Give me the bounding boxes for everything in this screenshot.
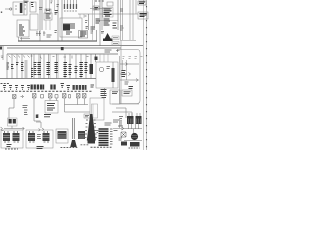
drop wire d1 xyxy=(6,54,8,79)
wiper arrows xyxy=(39,128,44,131)
drop wire d16 xyxy=(90,54,92,79)
wire horizontal h1 xyxy=(90,8,112,10)
ECU wire h6 xyxy=(120,79,139,81)
drop wire d9b xyxy=(49,54,51,79)
wire vertical w13 xyxy=(132,0,134,40)
fuse box F-A outline xyxy=(30,2,36,12)
motor box M1 outline xyxy=(1,130,23,148)
note box N1 text xyxy=(124,92,131,94)
ground row g7 xyxy=(67,86,71,90)
motor M1 brush marks xyxy=(7,145,12,147)
fuse F-B elements xyxy=(46,14,51,18)
blower marks xyxy=(119,138,123,140)
connector strip row 3 xyxy=(73,85,87,90)
heater leads up xyxy=(129,113,140,116)
wire vertical w3 xyxy=(57,0,59,41)
drop wire d4 xyxy=(21,54,23,79)
inline connector i4 xyxy=(49,94,53,99)
ground row g1 xyxy=(3,86,6,90)
terminal box T1 xyxy=(121,142,127,146)
marks in ECU low xyxy=(129,87,134,89)
heater pack block B xyxy=(136,116,142,124)
arrow on h5 xyxy=(129,73,131,76)
caption bottom right xyxy=(129,147,140,149)
wire vertical w7 xyxy=(101,0,103,30)
antenna motor blob xyxy=(78,131,85,139)
blob base xyxy=(103,39,113,42)
label specks top xyxy=(51,1,60,6)
wiper wire step xyxy=(36,114,41,128)
mark on w1 xyxy=(39,8,43,10)
fuse label column xyxy=(25,61,28,77)
lamp cluster L2 xyxy=(104,19,111,25)
arrow on h6 xyxy=(136,79,138,82)
wire vertical w9 xyxy=(96,30,98,41)
drop wire d14 xyxy=(80,54,82,79)
blower stripe xyxy=(132,136,138,138)
wire vertical w14 xyxy=(135,0,137,14)
option box B1 xyxy=(110,90,120,104)
motor M3 armature xyxy=(58,131,67,139)
inline connector i3 xyxy=(41,95,44,99)
drop wire d12 xyxy=(69,54,71,79)
wire bus step h7 xyxy=(65,99,91,113)
branch comp b7 xyxy=(47,63,51,75)
washer pump housing xyxy=(8,118,18,126)
label box LB1 xyxy=(112,36,119,40)
wiper switch speck xyxy=(36,115,38,119)
meter cluster box outline xyxy=(103,8,114,18)
wire vertical w17 xyxy=(34,99,41,122)
fuse F-A element xyxy=(31,3,34,7)
drop wire d6 xyxy=(33,54,35,79)
wire stub left xyxy=(2,46,4,60)
relay box K2 outline xyxy=(96,62,118,88)
junction block J1 outline xyxy=(60,18,82,37)
drop wire d10 xyxy=(56,54,58,79)
wire vertical w16 xyxy=(104,88,106,95)
drop wire d5 xyxy=(31,54,33,79)
ground row g3 xyxy=(15,86,18,90)
antenna cone ladder ticks left xyxy=(85,120,89,138)
heater pack block A xyxy=(127,116,134,124)
ECU wire h5 xyxy=(120,73,127,75)
washer pump connector blob B xyxy=(13,119,16,124)
ground symbol left xyxy=(118,117,123,127)
dark mark left edge xyxy=(0,47,2,50)
amp box inner xyxy=(92,104,98,118)
resistor R1 marks xyxy=(55,11,59,15)
fuse F4 xyxy=(73,4,74,9)
ECU inner wire h4 xyxy=(120,63,139,65)
connector strip row 2 xyxy=(50,85,55,90)
motor M2 stripes xyxy=(28,135,49,137)
wire vertical w2 xyxy=(41,0,43,30)
terminal box T2 xyxy=(130,142,140,147)
junction blob on w4 xyxy=(61,47,64,50)
relay K2 top stubs xyxy=(100,54,108,62)
J1 label xyxy=(66,32,72,34)
title tag fill xyxy=(139,2,145,4)
speck cluster above J1 xyxy=(85,16,88,23)
gauge box G1 xyxy=(93,6,99,10)
branch comp b8 xyxy=(55,63,59,73)
arrow on h4 xyxy=(126,63,128,66)
drop wire d7b xyxy=(40,54,42,79)
heater bus h8 xyxy=(124,128,142,130)
wire vertical w19 xyxy=(56,99,58,101)
drop wire d9 xyxy=(48,54,50,79)
branch comp b10 xyxy=(69,65,72,75)
blower motor blob xyxy=(131,133,138,140)
wire vertical w4b xyxy=(79,14,81,18)
ignition coil dark blob xyxy=(104,33,112,40)
fuse F2 xyxy=(67,4,68,9)
wire horizontal h3 xyxy=(120,13,138,15)
radio unit dark block xyxy=(99,129,109,145)
bus line ACC xyxy=(0,45,143,47)
amp box inner line xyxy=(92,104,94,118)
wire stubs C1 to bus xyxy=(19,37,22,41)
relay K2 coil xyxy=(99,67,104,72)
switch sym tops row xyxy=(1,56,89,59)
ground stack under K2 xyxy=(101,90,107,96)
branch comp b2 xyxy=(11,65,14,69)
bottom caption text xyxy=(91,146,112,148)
label above relay box xyxy=(105,50,112,52)
motor M2 terminals xyxy=(30,131,48,133)
connector blob on d16 xyxy=(90,64,94,74)
cluster meter pack xyxy=(104,9,112,16)
inline connector i6 xyxy=(63,94,67,99)
relay box K1 outline xyxy=(13,2,27,15)
wire vertical w10 xyxy=(120,0,122,40)
label box LB2 text xyxy=(113,42,118,44)
wire in K2 xyxy=(112,62,114,88)
mark at 54-57 xyxy=(55,31,58,33)
inline connector i2 xyxy=(33,94,37,99)
radio label right xyxy=(113,120,119,122)
fuse F3 xyxy=(70,4,71,9)
branch comp b6 xyxy=(38,63,42,75)
connector strip row dark xyxy=(31,85,45,90)
fuse F1 xyxy=(64,4,65,9)
caption under motor box M1 xyxy=(5,148,18,150)
wire vertical w11 xyxy=(122,0,124,40)
fuse row labels xyxy=(64,10,78,12)
bus line IGN xyxy=(7,47,121,49)
drop wire d7 xyxy=(38,54,40,79)
motor M3 stripes xyxy=(58,134,66,139)
motor M2 armature right xyxy=(43,133,50,141)
wire step right s2 xyxy=(112,112,132,118)
drop wire d10b xyxy=(57,54,59,79)
arrow right xyxy=(23,127,25,130)
sensor row symbols xyxy=(36,31,46,36)
fuse F5 xyxy=(76,4,77,9)
ECU bottom edge xyxy=(112,103,139,105)
motor M2 center marks xyxy=(37,135,41,139)
wire step right s1 xyxy=(116,108,126,118)
label specks w10 bottom xyxy=(120,26,124,30)
motor M1 stripes xyxy=(3,135,19,137)
label box LB2 xyxy=(112,42,119,46)
small box top label xyxy=(107,2,113,6)
inner corner wire xyxy=(120,41,137,105)
arrow left xyxy=(1,127,4,131)
wire vertical w4c xyxy=(83,14,85,18)
motor M2 feet xyxy=(29,141,49,143)
small box B3 marks xyxy=(85,116,89,117)
wire vertical w12 xyxy=(129,0,131,40)
branch comp b1 xyxy=(7,63,10,69)
branch comp b13 xyxy=(85,63,88,73)
ground row g2 xyxy=(9,86,12,90)
fuse row F1-F5 xyxy=(65,0,77,4)
branch comp b5 xyxy=(31,69,33,77)
motor M1 terminals xyxy=(5,131,18,133)
title tag box xyxy=(138,1,146,5)
wire vertical w4 xyxy=(61,0,63,41)
inline connector i1 xyxy=(13,95,17,99)
wire vertical w1 xyxy=(39,0,41,41)
label box LB1 text xyxy=(113,37,118,39)
node dot left margin xyxy=(1,12,2,13)
label above blob xyxy=(101,32,104,34)
inline connector i7 xyxy=(69,95,71,99)
wire horizontal h2b xyxy=(96,20,118,22)
caption under motors xyxy=(61,147,78,149)
label row under rail xyxy=(1,83,10,85)
inline connector i8 xyxy=(77,94,81,99)
drop wire d3 xyxy=(16,54,18,79)
resistor box with X xyxy=(121,132,126,137)
gauge G1 fill xyxy=(94,8,98,10)
motor box M2 outline xyxy=(26,130,53,148)
wire right inner vertical rail with ticks xyxy=(146,0,148,150)
ECU inner verticals xyxy=(123,60,127,80)
diode D1 symbols above F-B xyxy=(46,9,51,12)
arrow marks right xyxy=(116,49,120,52)
drop wire d15 xyxy=(85,54,87,79)
motor M1 armature right xyxy=(13,133,20,141)
drop wire d2 xyxy=(11,54,13,79)
marks below G1 xyxy=(91,27,96,29)
antenna mast base xyxy=(70,140,77,147)
mark near J1 xyxy=(86,27,89,29)
inline connector i5 xyxy=(55,95,58,99)
wire from blob xyxy=(4,126,24,129)
wire horizontal h2 xyxy=(90,13,120,15)
label specks 95-105 top xyxy=(95,0,104,2)
bus lower rail xyxy=(0,78,96,80)
marks near K2 bottom xyxy=(91,85,95,87)
wire vertical w18 xyxy=(49,99,51,101)
label mid text xyxy=(23,106,28,115)
washer pump connector blob xyxy=(9,119,12,124)
note box N1 xyxy=(122,90,132,96)
branch comp b5b xyxy=(34,63,37,75)
marks left of coil xyxy=(91,31,94,33)
wire vertical from K1 to top xyxy=(23,0,25,15)
motor M2 label xyxy=(37,147,44,149)
arrow a1 xyxy=(21,95,24,98)
antenna mast bar xyxy=(73,118,75,139)
ground row g6 xyxy=(61,84,65,88)
radio unit detail xyxy=(97,131,99,133)
wire vertical w3d xyxy=(54,0,56,10)
ground row g5 xyxy=(27,86,30,90)
antenna cone ladder ticks right xyxy=(94,120,98,138)
wire right outer vertical rail xyxy=(143,0,145,150)
wire step down-left xyxy=(9,99,14,122)
wire vertical w6c xyxy=(94,0,96,30)
ECU comp c1 xyxy=(122,71,126,77)
lower wire h9 xyxy=(124,140,142,142)
wire vertical w3b xyxy=(45,0,47,9)
inline connector i9 xyxy=(83,94,87,99)
legend box xyxy=(138,12,148,19)
connector housing C2 tall outline xyxy=(30,14,38,30)
drop wire d8 xyxy=(43,54,45,79)
branch comp b4 xyxy=(21,63,24,71)
wire vertical w5 xyxy=(88,14,90,30)
wire label text row xyxy=(1,90,92,92)
marks on w10 xyxy=(120,9,123,11)
heater wires down xyxy=(129,124,139,129)
branch comp b12 xyxy=(80,63,84,77)
connector dark mark on w15 xyxy=(95,57,98,61)
branch comp b3 xyxy=(16,63,19,65)
sensor row label xyxy=(47,35,52,37)
ignition switch block dark xyxy=(79,31,88,39)
wire vertical w15 xyxy=(95,54,97,62)
bus line B+ bold xyxy=(18,40,97,42)
branch comp b9 xyxy=(64,63,68,77)
module B2 text 1 xyxy=(47,104,55,111)
amp box B4 xyxy=(90,98,104,120)
wire vertical w6b xyxy=(92,0,94,41)
legend text block xyxy=(140,14,147,17)
module box B2 xyxy=(45,101,58,114)
wire stub radio right xyxy=(113,118,122,129)
fuse block F-B outline xyxy=(45,9,51,13)
ignition switch contacts xyxy=(80,32,87,36)
branch comp b11 xyxy=(75,67,78,73)
fuse block F-B outline xyxy=(44,13,52,20)
wire below C1 xyxy=(20,38,30,40)
connector C1 pin cluster xyxy=(19,25,25,35)
ground row g4 xyxy=(21,86,24,90)
J1 inner hatched pack xyxy=(63,24,75,28)
marks right of cluster xyxy=(113,23,118,28)
label text top-left xyxy=(25,1,29,2)
heater pack stripes xyxy=(129,119,141,124)
wire vertical w8 xyxy=(117,0,119,30)
option box B1 text xyxy=(112,92,118,94)
motor M1 feet xyxy=(4,141,19,143)
antenna cone base xyxy=(88,141,96,144)
drop wire d13 xyxy=(75,54,77,79)
drop wire d11 xyxy=(64,54,66,79)
heater bus drop xyxy=(133,129,135,133)
connector box C1 outline xyxy=(17,20,29,37)
relay K1 contact marks xyxy=(15,5,26,9)
lamp cluster L1 xyxy=(96,19,101,23)
comp under K2 xyxy=(102,96,107,98)
antenna motor stripes xyxy=(79,134,85,139)
wire vertical w6 xyxy=(99,0,101,46)
relay K1 hatched bar xyxy=(20,3,23,13)
motor box M3 outline xyxy=(56,129,68,143)
fuse block F-B upper marks xyxy=(46,10,50,12)
marks under stub xyxy=(114,127,124,131)
relay K2 armature bar xyxy=(112,68,115,82)
wire horizontal to C3 xyxy=(78,13,90,15)
big ECU box rounded outline xyxy=(118,50,140,104)
tick marks on right rail xyxy=(146,6,148,147)
motor M1 armature left xyxy=(3,133,10,141)
switch S1 xyxy=(10,8,12,10)
bus line ST xyxy=(7,53,118,55)
radio label top xyxy=(105,123,112,125)
motor M2 armature left xyxy=(28,133,35,141)
J1 dark core xyxy=(63,25,70,31)
relay K2 contact marks xyxy=(107,67,111,69)
caption under antenna xyxy=(81,144,90,146)
pin list column short xyxy=(87,114,96,141)
wire lead to switch S1 xyxy=(5,8,10,10)
ECU marks c2 xyxy=(125,82,129,84)
small box B3 xyxy=(84,114,90,118)
ECU pin marks row xyxy=(123,57,143,59)
wire stubs below F-B xyxy=(46,20,50,30)
radio pin column xyxy=(110,129,113,144)
wire vertical w3c xyxy=(49,0,51,9)
module B2 label below xyxy=(44,115,51,117)
